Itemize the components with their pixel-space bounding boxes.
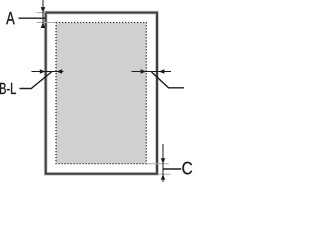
arrowhead A down (tip at paper top) bbox=[41, 7, 46, 13]
dimension line C (vertical) bbox=[162, 144, 164, 182]
arrowhead C down (tip at printable bottom) bbox=[161, 158, 166, 164]
label A (vectorized Liberation Sans, condensed) bbox=[6, 12, 15, 24]
leader line for C bbox=[163, 168, 181, 170]
arrowhead B-L right-pointing (tip at paper left edge) bbox=[40, 69, 46, 74]
label C (vectorized Liberation Sans, condensed) bbox=[182, 162, 192, 175]
leader for B-R: diagonal then horizontal (label cropped out of view) bbox=[152, 72, 185, 88]
arrowhead C up (tip at paper bottom) bbox=[161, 174, 166, 180]
paper sheet outline (core stroke) bbox=[46, 13, 157, 174]
tick: printable bottom edge extension bbox=[146, 163, 168, 165]
tick: printable top edge extension bbox=[37, 22, 57, 24]
arrowhead B-R left-pointing (tip at paper right edge) bbox=[159, 69, 165, 74]
tick: paper top edge extension bbox=[37, 12, 46, 14]
arrowhead B-R right-pointing (tip at printable right edge) bbox=[141, 69, 147, 74]
arrowhead A up (tip at printable top) bbox=[41, 22, 46, 28]
leader for B-L: horizontal then diagonal bbox=[20, 72, 53, 89]
printable area (gray, dotted border) bbox=[56, 23, 146, 164]
dimension line B-R (horizontal, right side) bbox=[132, 71, 172, 73]
tick: paper bottom edge extension bbox=[158, 173, 171, 175]
label B-L (vectorized Liberation Sans, condensed) bbox=[0, 83, 16, 94]
dimension line A (vertical) bbox=[42, 0, 44, 28]
leader line for A bbox=[19, 17, 46, 19]
dimension line B-L (horizontal) bbox=[32, 71, 64, 73]
paper sheet outline bbox=[46, 13, 157, 174]
arrowhead B-L left-pointing (tip at printable left edge) bbox=[57, 69, 63, 74]
